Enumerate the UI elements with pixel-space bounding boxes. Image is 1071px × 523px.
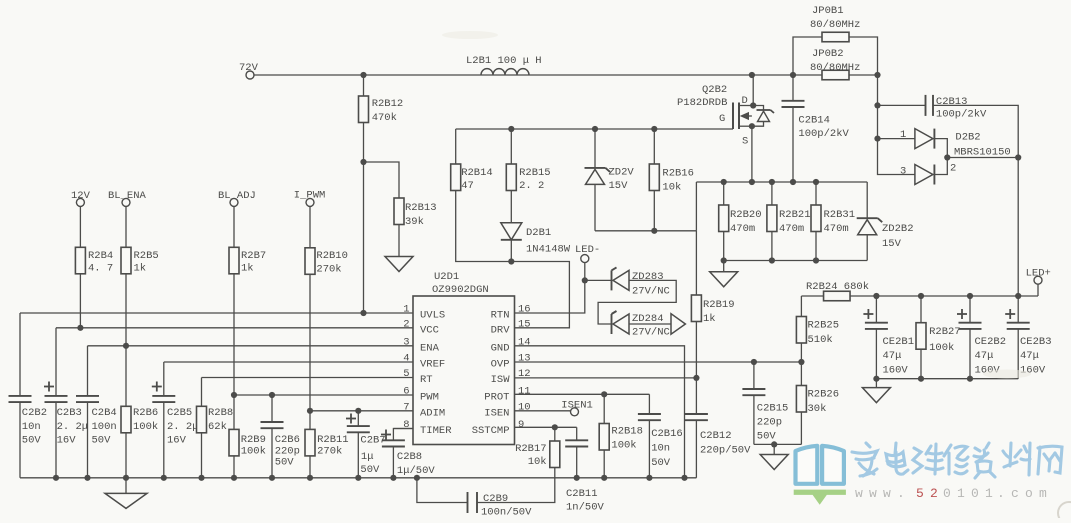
zener ZD2B2 15V: [857, 182, 914, 261]
svg-text:L2B1 100 μ H: L2B1 100 μ H: [466, 55, 542, 67]
junction out-bottom CE2B2: [967, 376, 973, 382]
wire C2B9 branch left: [417, 478, 468, 503]
resistor R2B12: [359, 75, 404, 124]
svg-text:12V: 12V: [71, 190, 91, 202]
wire drain node to JP node: [752, 74, 793, 76]
junction bus R2B18: [601, 475, 607, 481]
svg-text:RTN: RTN: [491, 310, 510, 322]
svg-text:100p/2kV: 100p/2kV: [798, 128, 849, 140]
svg-text:50V: 50V: [360, 464, 380, 476]
svg-text:470k: 470k: [372, 112, 397, 124]
svg-text:Q2B2: Q2B2: [702, 84, 727, 96]
svg-text:27V/NC: 27V/NC: [632, 286, 670, 298]
svg-text:10n: 10n: [651, 443, 670, 455]
svg-text:C2B11: C2B11: [566, 488, 598, 500]
capacitor C2B5: [152, 362, 199, 478]
svg-text:2. 2μ: 2. 2μ: [57, 421, 89, 433]
wire pin1 UVLS rail: [20, 312, 413, 314]
svg-text:100k: 100k: [929, 342, 954, 354]
wire JP left to JP0B2: [793, 74, 822, 76]
svg-text:80/80MHz: 80/80MHz: [810, 62, 860, 74]
svg-text:47: 47: [461, 180, 474, 192]
terminal 72V: [239, 62, 259, 79]
svg-text:OVP: OVP: [491, 359, 510, 371]
terminal ISEN1: [561, 400, 593, 416]
svg-text:100p/2kV: 100p/2kV: [936, 109, 987, 121]
svg-text:C2B12: C2B12: [700, 430, 732, 442]
svg-text:R2B11: R2B11: [317, 434, 349, 446]
wire column to D2B2-3: [878, 139, 915, 175]
wire D2B2-1 cathode: [934, 139, 947, 158]
svg-text:50V: 50V: [757, 431, 777, 443]
wire R2B7 to PWM rail: [233, 274, 235, 395]
junction R2B20 bottom: [721, 257, 727, 263]
junction LED- node: [582, 277, 588, 283]
resistor R2B4: [75, 206, 113, 274]
svg-text:R2B17: R2B17: [515, 443, 547, 455]
capacitor C2B6: [261, 395, 300, 478]
junction PWM-R2B9: [231, 392, 237, 398]
capacitor CE2B2: [957, 296, 1006, 379]
junction R2B21 bottom: [769, 257, 775, 263]
junction R2B21 top: [769, 179, 775, 185]
junction D2B2 pin1: [874, 136, 880, 142]
svg-text:BL_ADJ: BL_ADJ: [218, 190, 256, 202]
svg-text:PROT: PROT: [484, 392, 509, 404]
svg-text:JP0B2: JP0B2: [812, 48, 844, 60]
svg-text:ZD2B2: ZD2B2: [882, 223, 914, 235]
svg-text:47μ: 47μ: [883, 350, 902, 362]
svg-text:JP0B1: JP0B1: [812, 5, 844, 17]
zener ZD283 27V/NC: [612, 267, 670, 297]
op-amp U2D1 OZ9902DGN body: [413, 271, 515, 445]
diode D2B2 half 1: [878, 129, 1011, 159]
junction drain top: [749, 72, 755, 78]
svg-text:62k: 62k: [208, 421, 227, 433]
svg-text:C2B3: C2B3: [57, 407, 82, 419]
junction ADIM-R2B11: [307, 408, 313, 414]
junction drive node: [508, 258, 514, 264]
svg-text:ZD2V: ZD2V: [609, 167, 635, 179]
capacitor C2B2: [9, 313, 48, 478]
svg-text:1k: 1k: [241, 262, 254, 274]
svg-text:.com: .com: [997, 486, 1053, 501]
wire top right column: [877, 75, 879, 105]
junction JP right: [874, 72, 880, 78]
junction out-bottom CE2B1: [873, 376, 879, 382]
svg-text:VCC: VCC: [420, 324, 439, 336]
svg-text:R2B20: R2B20: [730, 209, 762, 221]
junction PROT-R2B18: [601, 391, 607, 397]
wire to C2B13: [878, 104, 926, 106]
svg-text:1n/50V: 1n/50V: [566, 502, 605, 514]
wire ground bus: [20, 477, 696, 479]
junction ENA-R2B5: [123, 343, 129, 349]
junction gate-R2B16: [651, 126, 657, 132]
svg-text:CE2B3: CE2B3: [1020, 336, 1052, 348]
resistor R2B8: [197, 378, 234, 478]
svg-text:C2B4: C2B4: [92, 407, 117, 419]
wire gate: [654, 128, 733, 130]
resistor R2B25: [796, 296, 839, 362]
svg-text:8: 8: [403, 419, 409, 431]
svg-text:www.: www.: [855, 486, 911, 501]
svg-text:C2B8: C2B8: [397, 451, 422, 463]
resistor R2B9: [229, 395, 266, 478]
svg-text:4: 4: [403, 353, 409, 365]
svg-text:TIMER: TIMER: [420, 425, 452, 437]
wire node to DRV pin15: [511, 262, 569, 328]
svg-text:R2B9: R2B9: [241, 434, 266, 446]
resistor R2B14: [451, 129, 493, 192]
wire node to inductor: [364, 74, 482, 76]
junction bus C2B5: [161, 475, 167, 481]
junction bus GND trace: [681, 475, 687, 481]
resistor R2B26: [796, 362, 839, 444]
svg-text:39k: 39k: [405, 216, 424, 228]
junction bus C2B6: [269, 475, 275, 481]
svg-text:D2B2: D2B2: [955, 132, 980, 144]
svg-text:R2B18: R2B18: [611, 425, 643, 437]
wire gate-clamp bottom rail: [595, 230, 696, 232]
wire pin2 to output column: [947, 157, 1018, 159]
svg-text:LED-: LED-: [575, 244, 600, 256]
svg-text:470m: 470m: [824, 223, 849, 235]
svg-text:ENA: ENA: [420, 342, 440, 354]
scan smudge top: [442, 31, 498, 39]
svg-text:C2B13: C2B13: [936, 96, 968, 108]
svg-text:OZ9902DGN: OZ9902DGN: [432, 284, 489, 296]
junction bus C2B7: [355, 475, 361, 481]
wire ZD283 to ZD284: [598, 280, 676, 324]
zener ZD2V 15V: [585, 129, 635, 231]
svg-text:100k: 100k: [241, 445, 266, 457]
terminal 12V: [71, 190, 91, 206]
wire source: [751, 126, 753, 182]
junction bus C2B8: [390, 475, 396, 481]
wire pin12 ISW rail: [515, 377, 697, 379]
resistor R2B15: [506, 129, 550, 192]
svg-text:ISEN: ISEN: [484, 407, 509, 419]
capacitor C2B9: [468, 492, 533, 519]
svg-text:D2B1: D2B1: [526, 227, 551, 239]
wire pin10 ISEN: [515, 410, 571, 412]
junction OVP-C2B15: [751, 359, 757, 365]
capacitor C2B16: [638, 394, 683, 478]
svg-text:P182DRDB: P182DRDB: [677, 97, 727, 109]
resistor R2B16: [649, 129, 694, 231]
svg-text:100n/50V: 100n/50V: [481, 507, 532, 519]
svg-text:RT: RT: [420, 374, 433, 386]
wire inductor to drain node: [529, 74, 752, 76]
svg-text:G: G: [719, 113, 725, 125]
wire JP0B1 loop right: [849, 37, 878, 75]
junction D2B2 pin2: [944, 154, 950, 160]
svg-text:R2B26: R2B26: [808, 389, 840, 401]
capacitor CE2B3: [1005, 296, 1051, 379]
wire output cap bottom rail: [876, 378, 1018, 380]
svg-text:LED+: LED+: [1026, 268, 1051, 280]
capacitor C2B15: [742, 362, 788, 444]
resistor R2B17: [515, 427, 560, 468]
wire pin11 PROT rail: [515, 393, 650, 395]
diode D2B1 1N4148W: [501, 223, 571, 256]
svg-text:270k: 270k: [316, 264, 341, 276]
junction SSTCMP-R2B17: [552, 424, 558, 430]
svg-text:R2B14: R2B14: [461, 167, 493, 179]
svg-text:C2B2: C2B2: [22, 407, 47, 419]
svg-text:0101: 0101: [943, 486, 999, 501]
svg-text:R2B31: R2B31: [824, 209, 856, 221]
svg-text:80/80MHz: 80/80MHz: [810, 19, 860, 31]
capacitor C2B11: [565, 427, 604, 513]
junction ISW-R2B19: [693, 375, 699, 381]
svg-text:15: 15: [518, 318, 531, 330]
resistor R2B31: [811, 182, 855, 261]
svg-text:220p: 220p: [275, 445, 300, 457]
junction JP left: [790, 72, 796, 78]
svg-text:3: 3: [900, 166, 906, 178]
watermark text 家电维修资料网: [852, 443, 1062, 478]
svg-text:3: 3: [403, 336, 409, 348]
svg-text:I_PWM: I_PWM: [294, 190, 326, 202]
junction bus C2B11: [574, 475, 580, 481]
capacitor C2B13: [926, 95, 988, 121]
svg-text:16V: 16V: [167, 435, 187, 447]
svg-text:R2B12: R2B12: [372, 98, 404, 110]
junction bus C2B3: [53, 475, 59, 481]
svg-text:27V/NC: 27V/NC: [632, 327, 670, 339]
junction R2B31 bottom: [813, 257, 819, 263]
junction bus C2B4: [84, 475, 90, 481]
svg-text:72V: 72V: [239, 62, 259, 74]
svg-text:R2B4: R2B4: [88, 250, 113, 262]
resistor R2B27: [916, 296, 961, 379]
svg-text:MBRS10150: MBRS10150: [954, 147, 1011, 159]
svg-text:R2B5: R2B5: [134, 250, 159, 262]
wire output column down: [1017, 158, 1019, 297]
svg-text:52: 52: [916, 486, 944, 501]
svg-text:R2B25: R2B25: [808, 320, 840, 332]
capacitor C2B7: [346, 411, 386, 478]
svg-text:R2B8: R2B8: [208, 407, 233, 419]
junction out-bottom R2B27: [918, 376, 924, 382]
terminal BL_ADJ: [218, 190, 256, 206]
capacitor C2B14: [782, 75, 850, 182]
junction LED+ CE2B1: [873, 293, 879, 299]
jumper JP0B1: [810, 5, 860, 42]
capacitor C2B8: [381, 429, 435, 478]
svg-text:UVLS: UVLS: [420, 310, 445, 322]
wire R2B12 to node: [363, 123, 365, 163]
capacitor C2B3: [44, 328, 88, 478]
svg-text:47μ: 47μ: [1020, 350, 1039, 362]
NC arrow: [671, 314, 685, 335]
svg-text:5: 5: [403, 368, 409, 380]
junction UVLS rail: [360, 310, 366, 316]
svg-text:1N4148W: 1N4148W: [526, 244, 571, 256]
junction R2B16 bottom: [651, 228, 657, 234]
svg-text:CE2B2: CE2B2: [975, 336, 1007, 348]
terminal LED+: [1026, 268, 1051, 297]
resistor R2B18: [599, 394, 643, 478]
junction LED+ CE2B2: [967, 293, 973, 299]
svg-text:9: 9: [518, 419, 524, 431]
svg-text:6: 6: [403, 386, 409, 398]
svg-text:160V: 160V: [883, 365, 909, 377]
wire pin6 PWM rail: [234, 394, 413, 396]
wire ZD284 to NC arrow: [629, 323, 671, 325]
wire pin5 RT rail: [202, 377, 414, 379]
wire LED- to ZD283: [585, 279, 612, 281]
wire R2B26 bottom to ground: [754, 443, 802, 445]
junction PWM-C2B6: [269, 392, 275, 398]
resistor R2B19: [691, 231, 734, 378]
terminal BL_ENA: [108, 190, 147, 206]
svg-text:C2B5: C2B5: [167, 407, 192, 419]
svg-text:470m: 470m: [779, 223, 804, 235]
svg-text:1k: 1k: [134, 262, 147, 274]
svg-text:1: 1: [403, 304, 409, 316]
svg-text:C2B14: C2B14: [798, 115, 830, 127]
wire gate rail: [456, 128, 655, 130]
svg-text:C2B6: C2B6: [275, 434, 300, 446]
watermark book icon: [794, 446, 846, 505]
svg-text:R2B19: R2B19: [703, 299, 735, 311]
svg-text:1μ: 1μ: [361, 451, 374, 463]
wire pin8 TIMER stub: [393, 428, 413, 430]
svg-text:ADIM: ADIM: [420, 407, 445, 419]
wire pin7 ADIM rail: [310, 410, 413, 412]
wire source bus: [696, 181, 867, 183]
svg-text:30k: 30k: [808, 403, 827, 415]
terminal LED-: [575, 244, 600, 280]
svg-text:C2B9: C2B9: [483, 493, 508, 505]
svg-text:10k: 10k: [528, 456, 547, 468]
inductor L2B1: [466, 55, 542, 75]
svg-text:C2B15: C2B15: [757, 403, 789, 415]
diode D2B2 half 3: [900, 163, 956, 185]
svg-text:SSTCMP: SSTCMP: [472, 425, 510, 437]
junction sense ground: [771, 441, 777, 447]
junction output at LED+ rail: [1015, 293, 1021, 299]
svg-text:16: 16: [518, 304, 531, 316]
svg-text:CE2B1: CE2B1: [883, 336, 915, 348]
svg-text:2: 2: [950, 163, 956, 175]
svg-text:R2B13: R2B13: [405, 202, 437, 214]
wire R2B15 to D2B1: [510, 191, 512, 223]
svg-text:470m: 470m: [730, 223, 755, 235]
svg-text:10: 10: [518, 401, 531, 413]
svg-text:220p/50V: 220p/50V: [700, 445, 751, 457]
junction bus R2B11: [307, 475, 313, 481]
svg-text:R2B16: R2B16: [662, 168, 694, 180]
svg-text:VREF: VREF: [420, 359, 445, 371]
svg-text:R2B27: R2B27: [929, 326, 961, 338]
ground below divider: [760, 444, 788, 469]
svg-text:S: S: [742, 136, 748, 148]
svg-text:11: 11: [518, 386, 531, 398]
junction ADIM-C2B7: [355, 408, 361, 414]
svg-text:50V: 50V: [92, 435, 112, 447]
ground below R2B13: [385, 257, 413, 272]
svg-text:ISEN1: ISEN1: [561, 400, 593, 412]
junction output column: [1015, 154, 1021, 160]
wire C2B13 to right: [933, 105, 1018, 157]
wire node to UVLS rail: [363, 162, 365, 313]
junction R2B20 top: [721, 179, 727, 185]
wire column to D2B2-1: [877, 105, 879, 138]
svg-text:2: 2: [403, 318, 409, 330]
svg-text:100k: 100k: [611, 439, 636, 451]
svg-text:U2D1: U2D1: [434, 271, 459, 283]
svg-text:R2B6: R2B6: [133, 407, 158, 419]
resistor R2B13: [394, 198, 437, 228]
capacitor CE2B1: [863, 296, 914, 379]
resistor R2B11: [305, 411, 349, 478]
svg-text:14: 14: [518, 336, 531, 348]
wire R2B14 bottom: [456, 191, 512, 262]
pin labels U2D1: [403, 304, 530, 438]
svg-text:47μ: 47μ: [975, 350, 994, 362]
svg-text:R2B10: R2B10: [316, 250, 348, 262]
svg-text:10n: 10n: [22, 421, 41, 433]
wire pin4 VREF rail: [164, 361, 413, 363]
resistor R2B10: [305, 206, 348, 275]
svg-text:15V: 15V: [609, 180, 629, 192]
svg-text:50V: 50V: [22, 435, 42, 447]
wire 72V to R2B12 top node: [254, 74, 364, 76]
resistor R2B7: [229, 206, 266, 274]
zener ZD284 27V/NC: [612, 311, 670, 339]
svg-text:BL_ENA: BL_ENA: [108, 190, 147, 202]
svg-text:7: 7: [403, 401, 409, 413]
junction LED+ R2B27: [918, 293, 924, 299]
wire R2B5 to ENA: [125, 274, 127, 346]
svg-text:ZD284: ZD284: [632, 313, 664, 325]
svg-text:4. 7: 4. 7: [88, 262, 113, 274]
svg-text:510k: 510k: [808, 334, 833, 346]
svg-text:50V: 50V: [651, 457, 671, 469]
svg-text:2. 2μ: 2. 2μ: [167, 421, 199, 433]
scan smudge right: [983, 370, 1031, 379]
terminal I_PWM: [294, 190, 326, 207]
svg-text:ZD283: ZD283: [632, 271, 664, 283]
wire JP0B2 to right node: [849, 74, 878, 76]
svg-text:10k: 10k: [662, 182, 681, 194]
ground main: [105, 478, 147, 509]
svg-text:15V: 15V: [882, 238, 902, 250]
resistor R2B21: [767, 182, 811, 261]
wire pin9 SSTCMP: [515, 426, 577, 428]
svg-text:1k: 1k: [703, 313, 716, 325]
wire pin3 ENA rail: [88, 345, 414, 347]
scan arc bottom-right: [1058, 502, 1071, 523]
capacitor C2B4: [76, 346, 117, 478]
svg-text:C2B16: C2B16: [651, 428, 683, 440]
wire D2B2-3 cathode: [934, 158, 947, 175]
wire R2B4 to VCC: [79, 274, 81, 328]
junction OVP-R2B25: [798, 359, 804, 365]
wire R2B13 to ground: [398, 225, 400, 257]
junction gate-R2B15: [508, 126, 514, 132]
svg-text:270k: 270k: [317, 445, 342, 457]
wire LED+ rail: [801, 295, 1038, 297]
junction VCC-R2B4: [77, 325, 83, 331]
wire node to R2B13: [364, 162, 400, 198]
junction R2B12 top: [360, 72, 366, 78]
svg-text:ISW: ISW: [491, 374, 511, 386]
